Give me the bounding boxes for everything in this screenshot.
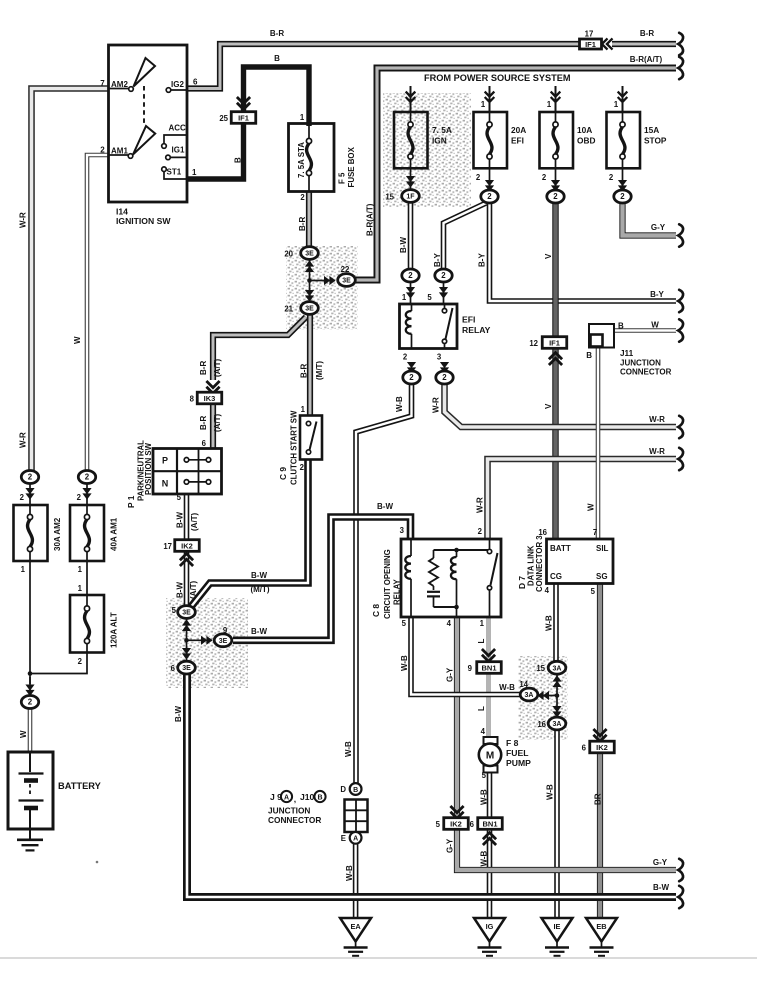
svg-text:22: 22	[341, 265, 350, 274]
svg-text:1: 1	[21, 565, 26, 574]
node 3E-9	[214, 626, 232, 647]
svg-text:17: 17	[585, 30, 594, 39]
svg-text:L: L	[477, 639, 486, 644]
svg-text:CONNECTOR 3: CONNECTOR 3	[535, 535, 544, 592]
svg-text:3E: 3E	[182, 610, 191, 617]
wire B-W main from 3E-6 down and along bottom to off-page	[174, 674, 676, 897]
svg-text:W-R: W-R	[432, 397, 441, 413]
svg-text:3E: 3E	[219, 638, 228, 645]
svg-text:1: 1	[480, 619, 485, 628]
svg-text:,: ,	[294, 794, 296, 804]
svg-text:IK2: IK2	[181, 541, 193, 550]
svg-text:1: 1	[614, 100, 619, 109]
svg-text:1: 1	[301, 405, 306, 414]
svg-text:B-R(A/T): B-R(A/T)	[366, 203, 375, 236]
svg-text:BN1: BN1	[481, 663, 496, 672]
svg-text:W-B: W-B	[395, 396, 404, 412]
svg-text:B-R(A/T): B-R(A/T)	[630, 55, 663, 64]
clutch start switch C9	[278, 410, 322, 485]
svg-text:L: L	[477, 706, 486, 711]
wire L from circuit opening relay pin 1 via BN1 to fuel pump	[477, 617, 489, 737]
svg-text:EFI: EFI	[462, 315, 475, 325]
node junction between 3E ovals (middle)	[182, 619, 213, 660]
svg-text:B-R: B-R	[298, 217, 307, 231]
svg-text:14: 14	[519, 680, 528, 689]
svg-text:B-W: B-W	[251, 571, 267, 580]
svg-text:IGNITION SW: IGNITION SW	[116, 216, 171, 226]
off-page end of W-R wire (lower)	[678, 448, 683, 470]
svg-text:1: 1	[300, 113, 305, 122]
svg-text:9: 9	[468, 664, 473, 673]
oval connector 2 below EFI fuse	[476, 173, 498, 203]
wire W from fusible link to battery	[19, 708, 30, 752]
wire B-R from STA fuse pin 2 down to 3E-20	[298, 192, 309, 248]
svg-text:IG1: IG1	[172, 146, 185, 155]
svg-text:IF1: IF1	[549, 338, 560, 347]
svg-text:2: 2	[441, 271, 446, 280]
svg-text:B-Y: B-Y	[433, 253, 442, 267]
svg-text:2: 2	[442, 373, 447, 382]
svg-text:B-W: B-W	[377, 502, 393, 511]
svg-text:6: 6	[193, 78, 198, 87]
svg-text:CONNECTOR: CONNECTOR	[268, 815, 321, 825]
node 3E-21	[284, 290, 318, 314]
svg-text:W-R: W-R	[649, 447, 665, 456]
svg-text:W-B: W-B	[400, 655, 409, 671]
node junction between 3A ovals	[537, 674, 561, 717]
ground IG	[474, 918, 505, 942]
svg-text:IK2: IK2	[596, 743, 608, 752]
svg-text:IK2: IK2	[450, 819, 462, 828]
svg-text:(M/T): (M/T)	[315, 361, 324, 380]
svg-text:6: 6	[202, 439, 207, 448]
wire V from OBD fuse down via IF1-12 to DLC3 BATT pin 16	[538, 168, 555, 539]
svg-text:C 8: C 8	[371, 604, 381, 617]
fuse 20A EFI	[474, 112, 527, 168]
svg-text:D: D	[340, 785, 346, 794]
svg-text:B: B	[353, 787, 358, 794]
fuse 10A OBD	[540, 112, 596, 168]
svg-text:ACC: ACC	[169, 124, 187, 133]
contact ST1 of I14	[162, 167, 197, 179]
svg-text:JUNCTION: JUNCTION	[268, 806, 310, 816]
svg-text:2: 2	[553, 192, 558, 201]
svg-text:G-Y: G-Y	[446, 667, 455, 682]
svg-text:P: P	[162, 456, 168, 466]
connector IK2-6 on BR wire	[582, 729, 615, 753]
ground EA	[340, 918, 371, 942]
svg-text:2: 2	[476, 173, 481, 182]
node 3E-22 to B-R(A/T)	[338, 265, 356, 286]
svg-text:CONNECTOR: CONNECTOR	[620, 368, 672, 377]
contact ACC of I14	[162, 124, 187, 149]
svg-text:W: W	[73, 336, 82, 344]
svg-text:2: 2	[620, 192, 625, 201]
wire W-B from 3A-16 down to ground IE	[546, 730, 558, 918]
svg-text:6: 6	[470, 820, 475, 829]
wire W-R from off-page right to circuit opening relay pin 2	[476, 447, 677, 539]
svg-text:W-R: W-R	[19, 432, 28, 448]
svg-text:120A ALT: 120A ALT	[110, 612, 119, 648]
svg-text:5: 5	[591, 587, 596, 596]
svg-text:7: 7	[100, 79, 105, 88]
svg-text:PUMP: PUMP	[506, 758, 531, 768]
svg-text:BATT: BATT	[550, 544, 571, 553]
shaded region behind 3E junction cluster (top)	[286, 246, 358, 330]
wire B-R(A/T) from 3E-21 via IK3 to park/neutral switch pin 6	[199, 317, 306, 449]
svg-text:B: B	[618, 322, 624, 331]
svg-text:2: 2	[20, 493, 25, 502]
oval connector 2 below AM1 wire	[78, 471, 95, 506]
park/neutral position switch P1	[126, 440, 222, 508]
wire W from junction connector J11 down to DLC3 SIL pin 7	[586, 348, 598, 540]
svg-text:I14: I14	[116, 207, 128, 217]
svg-text:3E: 3E	[342, 278, 351, 285]
off-page end of G-Y wire (top)	[678, 224, 683, 246]
fuse 30A AM2	[14, 493, 63, 574]
svg-text:(M/T): (M/T)	[250, 585, 269, 594]
node 3E-20 on B-R wire	[284, 247, 318, 260]
svg-text:G-Y: G-Y	[446, 838, 455, 853]
svg-text:B-W: B-W	[176, 512, 185, 528]
fuse box F5 7.5A STA	[289, 113, 357, 202]
wire G-Y from circuit opening relay pin 4 via IK2 to off-page bottom	[446, 617, 677, 870]
svg-text:1: 1	[78, 565, 83, 574]
wire W-B from circuit opening relay pin 5 to 3A-14	[400, 617, 520, 695]
wire feed to EFI fuse	[481, 86, 495, 112]
svg-text:17: 17	[163, 542, 172, 551]
svg-text:W-B: W-B	[345, 865, 354, 881]
svg-text:2: 2	[409, 373, 414, 382]
svg-text:25: 25	[219, 114, 228, 123]
svg-text:12: 12	[529, 339, 538, 348]
svg-text:G-Y: G-Y	[651, 223, 666, 232]
svg-text:4: 4	[545, 586, 550, 595]
svg-text:6: 6	[582, 744, 587, 753]
contact IG1 of I14	[166, 146, 187, 160]
oval connector 2 below EFI relay pin 2	[403, 362, 420, 384]
svg-text:V: V	[544, 403, 553, 409]
svg-text:3E: 3E	[305, 306, 314, 313]
svg-text:B: B	[234, 157, 243, 163]
ground below battery	[17, 829, 98, 863]
svg-text:A: A	[353, 836, 358, 843]
oval connector 2 above battery	[21, 677, 38, 709]
svg-text:2: 2	[408, 271, 413, 280]
wire B-R right segment from IF1-17 to off-page	[612, 29, 676, 44]
svg-text:SIL: SIL	[596, 544, 609, 553]
svg-text:B-W: B-W	[174, 706, 183, 722]
svg-text:(A/T): (A/T)	[213, 413, 222, 432]
svg-text:20: 20	[284, 250, 293, 259]
svg-text:B-W: B-W	[176, 582, 185, 598]
svg-text:8: 8	[190, 395, 195, 404]
wire B-R(M/T) from 3E-21 down to clutch start switch pin 1	[300, 314, 325, 416]
svg-text:CIRCUIT OPENING: CIRCUIT OPENING	[383, 549, 392, 619]
svg-text:W-B: W-B	[545, 615, 554, 631]
off-page end of B-W wire (bottom)	[678, 886, 683, 908]
svg-text:BN1: BN1	[482, 819, 497, 828]
fuse 7.5A IGN	[394, 112, 452, 168]
connector BN1-9 on L wire	[468, 649, 502, 673]
svg-text:RELAY: RELAY	[462, 325, 491, 335]
oval connector 1F below IGN fuse	[385, 176, 419, 202]
contact AM2 of I14	[100, 58, 155, 91]
svg-text:B-R: B-R	[199, 361, 208, 375]
svg-text:1: 1	[481, 100, 486, 109]
svg-text:7. 5A STA: 7. 5A STA	[297, 142, 306, 178]
separator line at page bottom	[0, 957, 757, 959]
svg-text:B-W: B-W	[251, 627, 267, 636]
svg-text:2: 2	[609, 173, 614, 182]
ground IE	[542, 918, 573, 942]
junction connector J9/J10	[268, 783, 368, 844]
svg-text:15A: 15A	[644, 125, 659, 135]
svg-text:W-R: W-R	[649, 415, 665, 424]
svg-text:STOP: STOP	[644, 136, 667, 146]
node junction between 3E ovals (top)	[305, 260, 336, 301]
wire W-B from fuel pump pin 5 via BN1 to ground IG	[480, 771, 490, 918]
svg-text:W-B: W-B	[480, 789, 489, 805]
wire B-W(A/T) from park/neutral switch pin 5 via IK2 to 3E-5	[172, 493, 199, 615]
wire B-Y from EFI fuse to EFI relay pin 5	[427, 168, 489, 304]
oval connector 2 below AM2 wire	[21, 471, 38, 506]
node 3E-6	[171, 648, 196, 674]
wire feed to STOP fuse	[614, 86, 628, 112]
svg-text:6: 6	[171, 664, 176, 673]
shaded region behind 3A junction cluster	[518, 656, 568, 740]
svg-text:3E: 3E	[305, 251, 314, 258]
node 3A-15	[536, 661, 565, 674]
off-page end of G-Y wire (bottom)	[678, 859, 683, 881]
svg-text:1: 1	[192, 168, 197, 177]
svg-text:4: 4	[447, 619, 452, 628]
svg-text:W-R: W-R	[19, 212, 28, 228]
node 3A-14	[519, 680, 537, 701]
svg-text:SG: SG	[596, 572, 608, 581]
svg-text:9: 9	[223, 626, 228, 635]
svg-text:EFI: EFI	[511, 136, 524, 146]
svg-text:W-B: W-B	[499, 683, 515, 692]
wire feed to OBD fuse	[547, 86, 561, 112]
wire B-R from IG2 riser along top to connector IF1-17	[187, 29, 580, 89]
svg-text:16: 16	[537, 720, 546, 729]
svg-text:EA: EA	[350, 922, 361, 931]
svg-text:15: 15	[536, 664, 545, 673]
svg-text:E: E	[341, 834, 346, 843]
wire fuse links 40A AM1 to 120A ALT	[78, 561, 87, 595]
svg-text:3A: 3A	[553, 721, 562, 728]
svg-text:1F: 1F	[406, 194, 415, 201]
svg-text:B-W: B-W	[653, 883, 669, 892]
off-page end of W-R wire (upper)	[678, 416, 683, 438]
fuse 40A AM1	[70, 493, 119, 561]
EFI relay	[400, 304, 491, 362]
svg-text:W-B: W-B	[344, 741, 353, 757]
wire B-W from IGN fuse via 1F to EFI relay pin 1	[399, 168, 411, 304]
svg-text:W: W	[587, 503, 596, 511]
svg-text:JUNCTION: JUNCTION	[620, 359, 661, 368]
svg-text:B-Y: B-Y	[650, 290, 664, 299]
circuit opening relay C8	[371, 539, 501, 619]
svg-text:7: 7	[593, 528, 597, 537]
svg-text:5: 5	[427, 293, 432, 302]
svg-text:BR: BR	[594, 793, 603, 805]
data link connector 3 D7	[517, 535, 613, 592]
wire G-Y from STOP fuse to off-page right	[623, 168, 677, 236]
svg-text:B-W: B-W	[399, 237, 408, 253]
svg-text:40A AM1: 40A AM1	[110, 517, 119, 551]
svg-text:C 9: C 9	[278, 467, 288, 480]
node 3A-16	[537, 706, 565, 730]
svg-text:B-R: B-R	[270, 29, 284, 38]
svg-text:2: 2	[28, 473, 33, 482]
svg-text:B: B	[317, 794, 322, 801]
ground EB	[586, 918, 617, 942]
svg-text:2: 2	[77, 493, 82, 502]
wire W-R from EFI relay pin 3 to off-page right	[432, 384, 677, 427]
node 3E-5	[178, 606, 196, 619]
svg-text:3: 3	[400, 526, 405, 535]
svg-text:IG: IG	[486, 922, 494, 931]
svg-text:7. 5A: 7. 5A	[432, 125, 452, 135]
svg-text:IGN: IGN	[432, 136, 447, 146]
svg-text:J10: J10	[300, 792, 315, 802]
svg-text:(A/T): (A/T)	[190, 512, 199, 531]
svg-text:AM2: AM2	[111, 80, 128, 89]
wire W-R from AM2 pin 7 down to 30A AM2 fuse	[19, 89, 109, 472]
off-page end of W wire	[678, 319, 683, 341]
svg-text:EB: EB	[596, 922, 606, 931]
wire B-W(M/T) from 3E-5 to clutch start switch pin 2	[190, 460, 308, 609]
oval connector 2 on EFI relay pin 1 wire	[402, 269, 419, 299]
wire W from AM1 pin 2 down to 40A AM1 fuse	[73, 155, 109, 471]
wire BR from DLC3 SG pin 5 via IK2 to ground EB	[591, 584, 603, 919]
off-page end of B-R(A/T) wire	[678, 57, 683, 79]
svg-text:B-Y: B-Y	[478, 253, 487, 267]
svg-text:IF1: IF1	[585, 40, 596, 49]
svg-text:IE: IE	[554, 922, 561, 931]
svg-text:2: 2	[403, 353, 408, 362]
dashed link between ignition switch levers	[143, 86, 145, 124]
svg-text:2: 2	[542, 173, 547, 182]
svg-text:5: 5	[402, 619, 407, 628]
oval connector 2 below EFI relay pin 3	[436, 362, 453, 384]
svg-text:F 5: F 5	[338, 172, 347, 184]
connector BN1-6 on W-B wire	[470, 818, 503, 845]
wire W-B from EFI relay pin 2 down to junction connector J9/J10	[344, 384, 412, 784]
fuse 120A ALT	[70, 595, 119, 666]
svg-text:P 1: P 1	[126, 495, 136, 508]
svg-text:4: 4	[481, 727, 486, 736]
connector IF1-17 on top B-R wire	[580, 30, 613, 50]
shaded region behind 3E junction cluster (middle)	[166, 598, 248, 688]
off-page end of B-R wire	[678, 33, 683, 55]
svg-text:POSITION SW: POSITION SW	[144, 442, 153, 495]
contact AM1 of I14	[100, 126, 155, 158]
svg-text:ST1: ST1	[167, 168, 182, 177]
fuse 15A STOP	[607, 112, 667, 168]
svg-text:G-Y: G-Y	[653, 858, 668, 867]
connector IK2-5 on G-Y wire	[436, 806, 469, 829]
connector IF1-25 on B wire	[219, 97, 255, 123]
svg-text:W: W	[651, 321, 659, 330]
battery	[8, 752, 102, 829]
wire B from ST1 via IF1-25 to STA fuse	[187, 54, 309, 179]
svg-text:IG2: IG2	[171, 80, 184, 89]
svg-text:3: 3	[437, 353, 442, 362]
svg-text:30A AM2: 30A AM2	[53, 517, 62, 551]
svg-text:IF1: IF1	[238, 113, 249, 122]
svg-text:15: 15	[385, 193, 394, 202]
svg-text:B-R: B-R	[300, 364, 309, 378]
fuel pump F8	[479, 737, 531, 773]
svg-text:J11: J11	[620, 349, 634, 358]
shaded region behind IGN fuse	[383, 93, 471, 207]
off-page end of B-Y wire	[678, 290, 683, 312]
svg-text:B-R: B-R	[640, 29, 654, 38]
wire feed to IGN fuse	[410, 86, 412, 112]
svg-text:CLUTCH START SW: CLUTCH START SW	[290, 410, 299, 485]
junction connector J11	[589, 324, 672, 377]
svg-text:BATTERY: BATTERY	[58, 781, 102, 791]
svg-text:V: V	[544, 253, 553, 259]
connector IK2-17 on B-W wire	[163, 540, 199, 566]
svg-text:D 7: D 7	[517, 576, 527, 589]
connector IF1-12 on V wire	[529, 337, 566, 365]
wire W-B from DLC3 CG pin 4 down to 3A-15	[545, 584, 557, 662]
oval connector 2 below OBD fuse	[542, 173, 564, 203]
svg-text:RELAY: RELAY	[393, 578, 402, 605]
svg-text:IK3: IK3	[204, 394, 216, 403]
svg-text:N: N	[162, 479, 169, 489]
svg-text:M: M	[486, 751, 494, 762]
svg-text:W-B: W-B	[480, 850, 489, 866]
wire W-B from junction connector A to ground EA	[345, 844, 356, 919]
svg-text:3A: 3A	[553, 665, 562, 672]
svg-text:A: A	[284, 794, 289, 801]
svg-text:1: 1	[547, 100, 552, 109]
svg-text:2: 2	[300, 463, 305, 472]
svg-text:2: 2	[28, 698, 33, 707]
ignition switch I14	[109, 45, 188, 226]
svg-text:FUEL: FUEL	[506, 748, 528, 758]
wire B-W from 3E-9 to circuit opening relay pin 3	[233, 502, 411, 640]
svg-text:2: 2	[300, 193, 305, 202]
svg-text:2: 2	[78, 657, 83, 666]
svg-text:F 8: F 8	[506, 738, 519, 748]
oval connector 2 below STOP fuse	[609, 173, 631, 203]
svg-text:1: 1	[78, 584, 83, 593]
svg-text:CG: CG	[550, 572, 562, 581]
svg-text:2: 2	[487, 192, 492, 201]
wire B-Y from EFI fuse to off-page right	[478, 202, 677, 301]
svg-text:AM1: AM1	[111, 147, 128, 156]
svg-text:20A: 20A	[511, 125, 526, 135]
svg-text:1: 1	[402, 293, 407, 302]
svg-text:FUSE BOX: FUSE BOX	[347, 146, 356, 187]
oval connector 2 on EFI relay pin 5 wire	[435, 269, 452, 299]
svg-text:W-B: W-B	[546, 784, 555, 800]
svg-text:21: 21	[284, 305, 293, 314]
svg-text:B: B	[274, 54, 280, 63]
svg-text:2: 2	[478, 527, 483, 536]
svg-text:(A/T): (A/T)	[213, 358, 222, 377]
svg-text:2: 2	[85, 473, 90, 482]
svg-text:5: 5	[436, 820, 441, 829]
svg-text:2: 2	[100, 146, 105, 155]
svg-text:FROM POWER SOURCE SYSTEM: FROM POWER SOURCE SYSTEM	[424, 73, 571, 83]
